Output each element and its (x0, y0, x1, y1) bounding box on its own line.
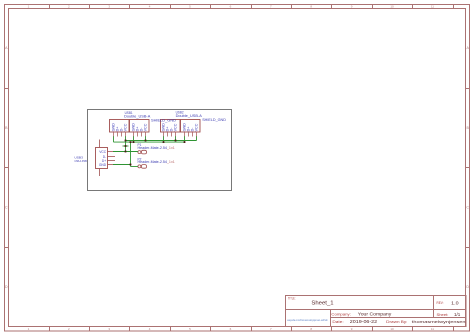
junction (125, 140, 127, 142)
wire USB3 GND run (113, 164, 131, 166)
title block divider row2 (right part) (331, 317, 467, 319)
svg-text:11: 11 (431, 327, 434, 331)
USB2 pin 5 (GND) (184, 132, 186, 137)
wire VCC feed vertical (125, 141, 127, 152)
USB2 pin 1 (GND) (163, 132, 165, 137)
wire GND to P2 (131, 166, 138, 168)
USB3 bottom shield pin (99, 169, 101, 177)
junction (145, 140, 147, 142)
svg-text:thomasmelwynjensen: thomasmelwynjensen (412, 319, 466, 324)
wire GND pin drop (133, 136, 135, 142)
svg-text:VCC: VCC (99, 150, 107, 154)
svg-text:REV:: REV: (437, 301, 444, 305)
header P2 pad circle (138, 165, 141, 168)
svg-text:Double_USB-A: Double_USB-A (176, 114, 203, 118)
svg-text:USB-A-PWR: USB-A-PWR (74, 159, 87, 163)
title block outline (286, 296, 467, 327)
svg-text:C: C (466, 205, 469, 209)
connector USB2 body right (181, 120, 201, 133)
title block column divider left (330, 310, 332, 327)
junction (133, 141, 135, 143)
svg-text:Drawn By:: Drawn By: (386, 320, 407, 324)
junction (163, 141, 165, 143)
connector USB1 body left (110, 120, 130, 133)
svg-text:easyeda.com/thomasmelwynjensen: easyeda.com/thomasmelwynjensen-usbhub (287, 318, 328, 322)
svg-text:2019-06-22: 2019-06-22 (350, 319, 378, 324)
svg-text:VCC: VCC (195, 123, 199, 131)
svg-text:VCC: VCC (124, 123, 128, 131)
USB1 pin 3 (D-) (121, 132, 123, 137)
USB2 pin 8 (VCC) (196, 132, 198, 137)
svg-text:SHIELD_GND: SHIELD_GND (151, 118, 176, 123)
USB3 top shield pin (99, 140, 101, 148)
svg-text:VCC: VCC (144, 123, 148, 131)
wire USB3 VCC to P1 (113, 151, 138, 153)
title block divider row1 (286, 309, 467, 311)
wire VCC rail (126, 140, 197, 142)
wire GND jog down (130, 165, 132, 167)
header P1 pad circle (138, 151, 141, 154)
wire VCC pin drop (175, 136, 177, 140)
junction (130, 141, 132, 143)
connector USB3 body (96, 148, 108, 169)
wire GND pin drop (184, 136, 186, 142)
wire VCC pin drop (125, 136, 127, 140)
svg-text:1.0: 1.0 (451, 300, 459, 305)
connector USB1 body right (130, 120, 150, 133)
USB1 pin 7 (D-) (141, 132, 143, 137)
svg-text:TITLE:: TITLE: (288, 296, 296, 300)
svg-text:Header-Mate-2.54_1x1: Header-Mate-2.54_1x1 (138, 160, 176, 164)
USB1 pin 5 (GND) (133, 132, 135, 137)
border ticks top edge (49, 5, 51, 9)
junction (175, 140, 177, 142)
svg-text:Header-Mate-2.54_1x1: Header-Mate-2.54_1x1 (138, 146, 176, 150)
USB3 pin 3 (D+) (108, 160, 116, 162)
svg-text:VCC: VCC (174, 123, 178, 131)
svg-text:SHIELD_GND: SHIELD_GND (202, 117, 226, 122)
junction (130, 164, 132, 166)
USB1 pin 8 (VCC) (145, 132, 147, 137)
wire GND pin drop (163, 136, 165, 142)
svg-text:Sheet:: Sheet: (437, 313, 449, 317)
USB3 pin 2 (D-) (108, 156, 116, 158)
svg-text:Company:: Company: (331, 312, 351, 316)
svg-text:10: 10 (390, 327, 394, 331)
wire GND pin drop (113, 136, 115, 142)
border ticks bottom edge (49, 327, 51, 332)
svg-text:Double_USB-A: Double_USB-A (124, 114, 151, 118)
svg-text:Date:: Date: (332, 320, 343, 324)
header P1 body (141, 150, 146, 154)
wire VCC pin drop (196, 136, 198, 140)
junction (125, 151, 127, 153)
USB2 pin 6 (D+) (188, 132, 190, 137)
wire GND feed vertical (130, 142, 132, 164)
plain rectangle around schematic (88, 110, 232, 191)
USB2 pin 7 (D-) (192, 132, 194, 137)
svg-text:10: 10 (390, 5, 394, 9)
wire stub at node (123, 145, 129, 147)
svg-text:1/1: 1/1 (454, 312, 461, 317)
USB1 pin 4 (VCC) (125, 132, 127, 137)
USB2 pin 2 (D+) (167, 132, 169, 137)
title block column divider rev (433, 296, 435, 318)
USB1 pin 6 (D+) (137, 132, 139, 137)
svg-text:D: D (5, 285, 8, 289)
svg-text:11: 11 (431, 5, 434, 9)
svg-text:C: C (5, 205, 8, 209)
USB3 pin 4 (GND) (108, 164, 114, 166)
svg-text:D: D (466, 285, 469, 289)
border ticks right edge (466, 88, 470, 90)
USB1 pin 1 (GND) (113, 132, 115, 137)
USB3 pin 1 (VCC) (108, 151, 114, 153)
USB2 pin 3 (D-) (171, 132, 173, 137)
svg-text:Your Company: Your Company (358, 312, 393, 317)
junction (184, 141, 186, 143)
svg-text:GND: GND (99, 163, 107, 167)
svg-text:Sheet_1: Sheet_1 (311, 300, 333, 306)
USB2 pin 4 (VCC) (175, 132, 177, 137)
junction (125, 145, 127, 147)
wire VCC pin drop (145, 136, 147, 140)
USB1 pin 2 (D+) (117, 132, 119, 137)
border ticks left edge (5, 88, 9, 90)
wire GND rail (114, 141, 185, 143)
connector USB2 body left (161, 120, 181, 133)
header P2 body (141, 165, 146, 169)
